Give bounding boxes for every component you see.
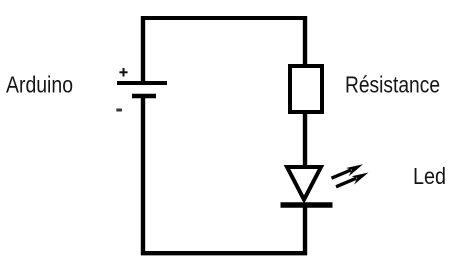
wire: resistor pin 2 down to LED anode: [303, 112, 307, 167]
battery BT1 polarity label -: [116, 109, 122, 112]
LED D1 anode triangle: [287, 167, 321, 200]
wire: right vertical, top wire down to resistor pin 1: [303, 16, 307, 66]
svg-text:Led: Led: [413, 163, 446, 189]
wire: LED cathode down to bottom wire: [303, 205, 307, 255]
battery BT1 (Arduino supply) positive plate: [117, 81, 167, 85]
LED D1 light emission arrow (lower): [335, 170, 371, 192]
wire: bottom horizontal net (battery - to LED cathode): [141, 251, 307, 255]
svg-text:Résistance: Résistance: [345, 72, 440, 98]
wire: left vertical, top wire down to battery positive plate: [141, 16, 145, 83]
LED D1 light emission arrow (upper): [330, 161, 365, 182]
resistor R1 (Résistance) box symbol: [290, 66, 322, 112]
wire: top horizontal net (battery + to resistor): [141, 16, 307, 20]
LED D1 cathode bar: [281, 202, 333, 208]
wire: battery negative plate down to bottom wire: [141, 96, 145, 255]
battery BT1 polarity label +: [119, 68, 127, 77]
battery BT1 negative plate: [132, 94, 156, 98]
svg-text:Arduino: Arduino: [6, 72, 73, 98]
